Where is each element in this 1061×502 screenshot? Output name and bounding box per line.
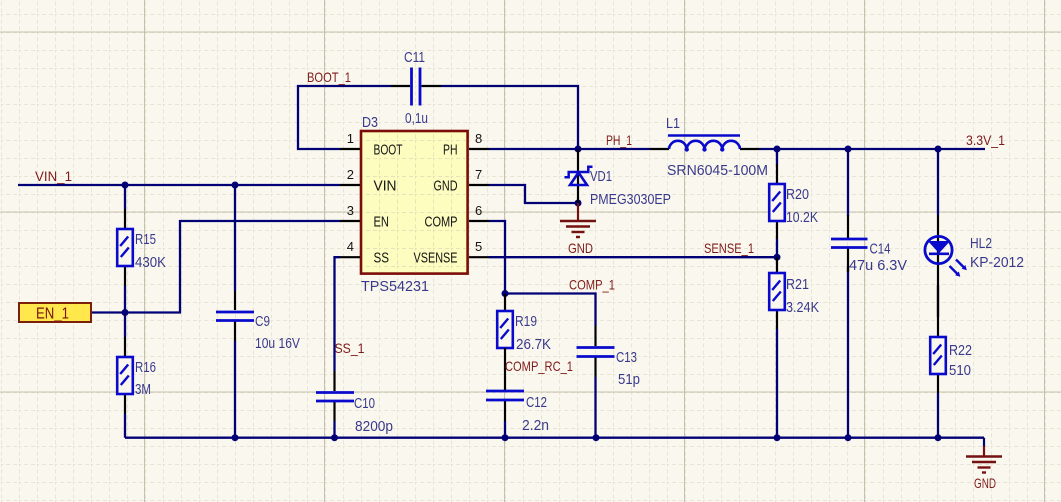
svg-text:6: 6 (475, 203, 482, 218)
pin 7 GND stub (469, 184, 489, 186)
wire comp node to C13 (505, 294, 596, 327)
wire pin7 GND to diode anode node (489, 185, 578, 203)
wire VIN_1 horizontal (18, 184, 340, 186)
svg-text:VIN_1: VIN_1 (35, 168, 72, 184)
svg-text:GND: GND (568, 240, 593, 256)
svg-text:R15: R15 (135, 232, 156, 248)
svg-text:4: 4 (347, 239, 354, 254)
junction sense node (774, 254, 781, 261)
junction 3.3V HL2 (935, 146, 942, 153)
svg-text:SENSE_1: SENSE_1 (704, 240, 754, 256)
resistor R15 (117, 209, 166, 286)
svg-text:C14: C14 (870, 242, 891, 258)
wire C12 bottom (504, 421, 506, 438)
svg-text:VD1: VD1 (590, 169, 612, 185)
diode VD1 PMEG3030EP (schottky) (565, 149, 672, 208)
wire C10 bottom (333, 421, 335, 438)
junction rail R21 (774, 434, 781, 441)
wire C14 top (847, 149, 849, 216)
pin 5 VSENSE stub (469, 256, 489, 258)
wire bottom ground rail (125, 437, 984, 439)
inductor L1 (650, 116, 768, 179)
svg-text:C13: C13 (616, 350, 637, 366)
svg-text:2.2n: 2.2n (522, 418, 549, 434)
svg-text:D3: D3 (362, 115, 378, 131)
svg-text:10u 16V: 10u 16V (255, 336, 300, 352)
svg-text:HL2: HL2 (970, 236, 992, 252)
resistor R20 (769, 164, 818, 239)
svg-text:TPS54231: TPS54231 (361, 279, 429, 295)
junction rail C13 (593, 434, 600, 441)
wire R20 top lead to 3.3V (776, 149, 778, 164)
svg-text:COMP: COMP (425, 215, 458, 231)
svg-text:430K: 430K (135, 255, 166, 271)
svg-text:7: 7 (475, 167, 482, 182)
resistor R16 (117, 337, 156, 414)
svg-text:C11: C11 (404, 50, 425, 66)
wire C9 bottom (234, 341, 236, 438)
svg-text:2: 2 (347, 167, 354, 182)
value TPS54231 (361, 279, 429, 295)
junction rail C10 (331, 434, 338, 441)
wire R16 top (124, 313, 126, 338)
svg-text:C10: C10 (354, 396, 375, 412)
resistor R22 (930, 317, 972, 393)
wire R15 bottom to EN node (124, 286, 126, 313)
junction rail C14 (845, 434, 852, 441)
svg-text:3: 3 (347, 203, 354, 218)
svg-text:1: 1 (347, 131, 354, 146)
svg-text:VSENSE: VSENSE (414, 251, 458, 267)
svg-text:3.3V_1: 3.3V_1 (966, 132, 1005, 148)
wire HL2 top (937, 149, 939, 215)
svg-text:R19: R19 (515, 314, 537, 330)
svg-text:BOOT_1: BOOT_1 (307, 69, 351, 85)
svg-text:R20: R20 (786, 187, 809, 203)
pin 4 SS stub (340, 256, 360, 258)
port EN_1 (19, 303, 91, 323)
capacitor C12 (486, 348, 549, 434)
svg-text:C9: C9 (255, 314, 270, 330)
wire PH net pin8 to L1 (489, 148, 650, 150)
wire VSENSE pin5 to sense node (489, 256, 777, 258)
junction 3.3V C14 (845, 146, 852, 153)
junction VIN C9 (232, 182, 239, 189)
op-amp regulator IC D3 TPS54231 body (361, 131, 468, 274)
junction diode anode (575, 200, 582, 207)
svg-text:5: 5 (475, 239, 482, 254)
wire C13 bottom (594, 377, 596, 438)
svg-text:10.2K: 10.2K (786, 210, 818, 226)
svg-text:R21: R21 (786, 277, 809, 293)
designator D3 (362, 115, 378, 131)
resistor R21 (769, 257, 819, 329)
wire SS pin4 to C10 (335, 257, 341, 371)
ground GND bottom right (966, 438, 1002, 491)
wire R21 bottom to rail (776, 329, 778, 438)
pin 6 COMP stub (469, 220, 489, 222)
wire BOOT_1 from pin1 up and to C11 (298, 86, 391, 149)
svg-text:3.24K: 3.24K (786, 300, 819, 316)
wire C14 bottom (847, 266, 849, 438)
svg-text:51p: 51p (618, 372, 640, 388)
wire 3.3V net L1 to right end (759, 148, 985, 150)
svg-text:SS: SS (374, 251, 390, 267)
svg-text:26.7K: 26.7K (516, 337, 551, 353)
svg-text:R22: R22 (949, 343, 972, 359)
capacitor C13 (577, 326, 641, 388)
svg-text:KP-2012: KP-2012 (970, 255, 1024, 271)
svg-text:GND: GND (434, 179, 458, 195)
svg-text:3M: 3M (135, 382, 151, 398)
svg-text:PH: PH (443, 143, 458, 159)
svg-text:EN_1: EN_1 (36, 306, 69, 323)
svg-text:0,1u: 0,1u (405, 111, 428, 127)
resistor R19 (497, 294, 551, 353)
svg-text:PH_1: PH_1 (606, 132, 632, 148)
svg-text:8200p: 8200p (355, 419, 393, 435)
junction rail R22 (935, 434, 942, 441)
capacitor C10 (316, 371, 393, 435)
wire R15 top lead to VIN (124, 185, 126, 209)
pin 1 BOOT stub (340, 148, 360, 150)
junction PH diode (575, 146, 582, 153)
svg-text:SRN6045-100M: SRN6045-100M (667, 163, 768, 179)
junction 3.3V R20 (774, 146, 781, 153)
wire R20 bottom to sense node (776, 239, 778, 257)
svg-text:BOOT: BOOT (374, 143, 403, 159)
svg-text:COMP_1: COMP_1 (569, 277, 615, 293)
svg-text:VIN: VIN (374, 179, 397, 195)
wire EN net port to pin3 (91, 221, 340, 313)
svg-text:PMEG3030EP: PMEG3030EP (590, 192, 671, 208)
svg-text:R16: R16 (135, 360, 156, 376)
junction rail C12 (502, 434, 509, 441)
svg-text:SS_1: SS_1 (335, 340, 365, 356)
svg-text:8: 8 (475, 131, 482, 146)
pin 8 PH stub (469, 148, 489, 150)
capacitor C9 (216, 291, 300, 352)
LED HL2 KP-2012 (925, 215, 1024, 317)
wire HL2 to R22 (937, 285, 939, 317)
wire C9 top lead from VIN (234, 185, 236, 291)
wire R22 bottom (937, 393, 939, 438)
wire R16 bottom to ground rail (124, 414, 126, 438)
svg-text:47u 6.3V: 47u 6.3V (849, 258, 907, 274)
svg-text:EN: EN (374, 215, 390, 231)
svg-text:GND: GND (974, 475, 996, 491)
svg-text:COMP_RC_1: COMP_RC_1 (505, 358, 573, 374)
svg-text:C12: C12 (526, 395, 547, 411)
wire C11 right to PH node (441, 86, 578, 149)
capacitor C14 (831, 215, 907, 274)
junction VIN R15 (122, 182, 129, 189)
junction comp node (502, 290, 509, 297)
junction EN node (122, 309, 129, 316)
svg-text:510: 510 (949, 363, 971, 379)
ground GND at diode (560, 203, 596, 256)
pin 2 VIN stub (340, 184, 360, 186)
junction rail C9 (232, 434, 239, 441)
svg-text:L1: L1 (666, 116, 680, 132)
wire COMP pin6 down to comp node (489, 221, 505, 294)
pin 3 EN stub (340, 220, 360, 222)
capacitor C11 (391, 50, 441, 127)
